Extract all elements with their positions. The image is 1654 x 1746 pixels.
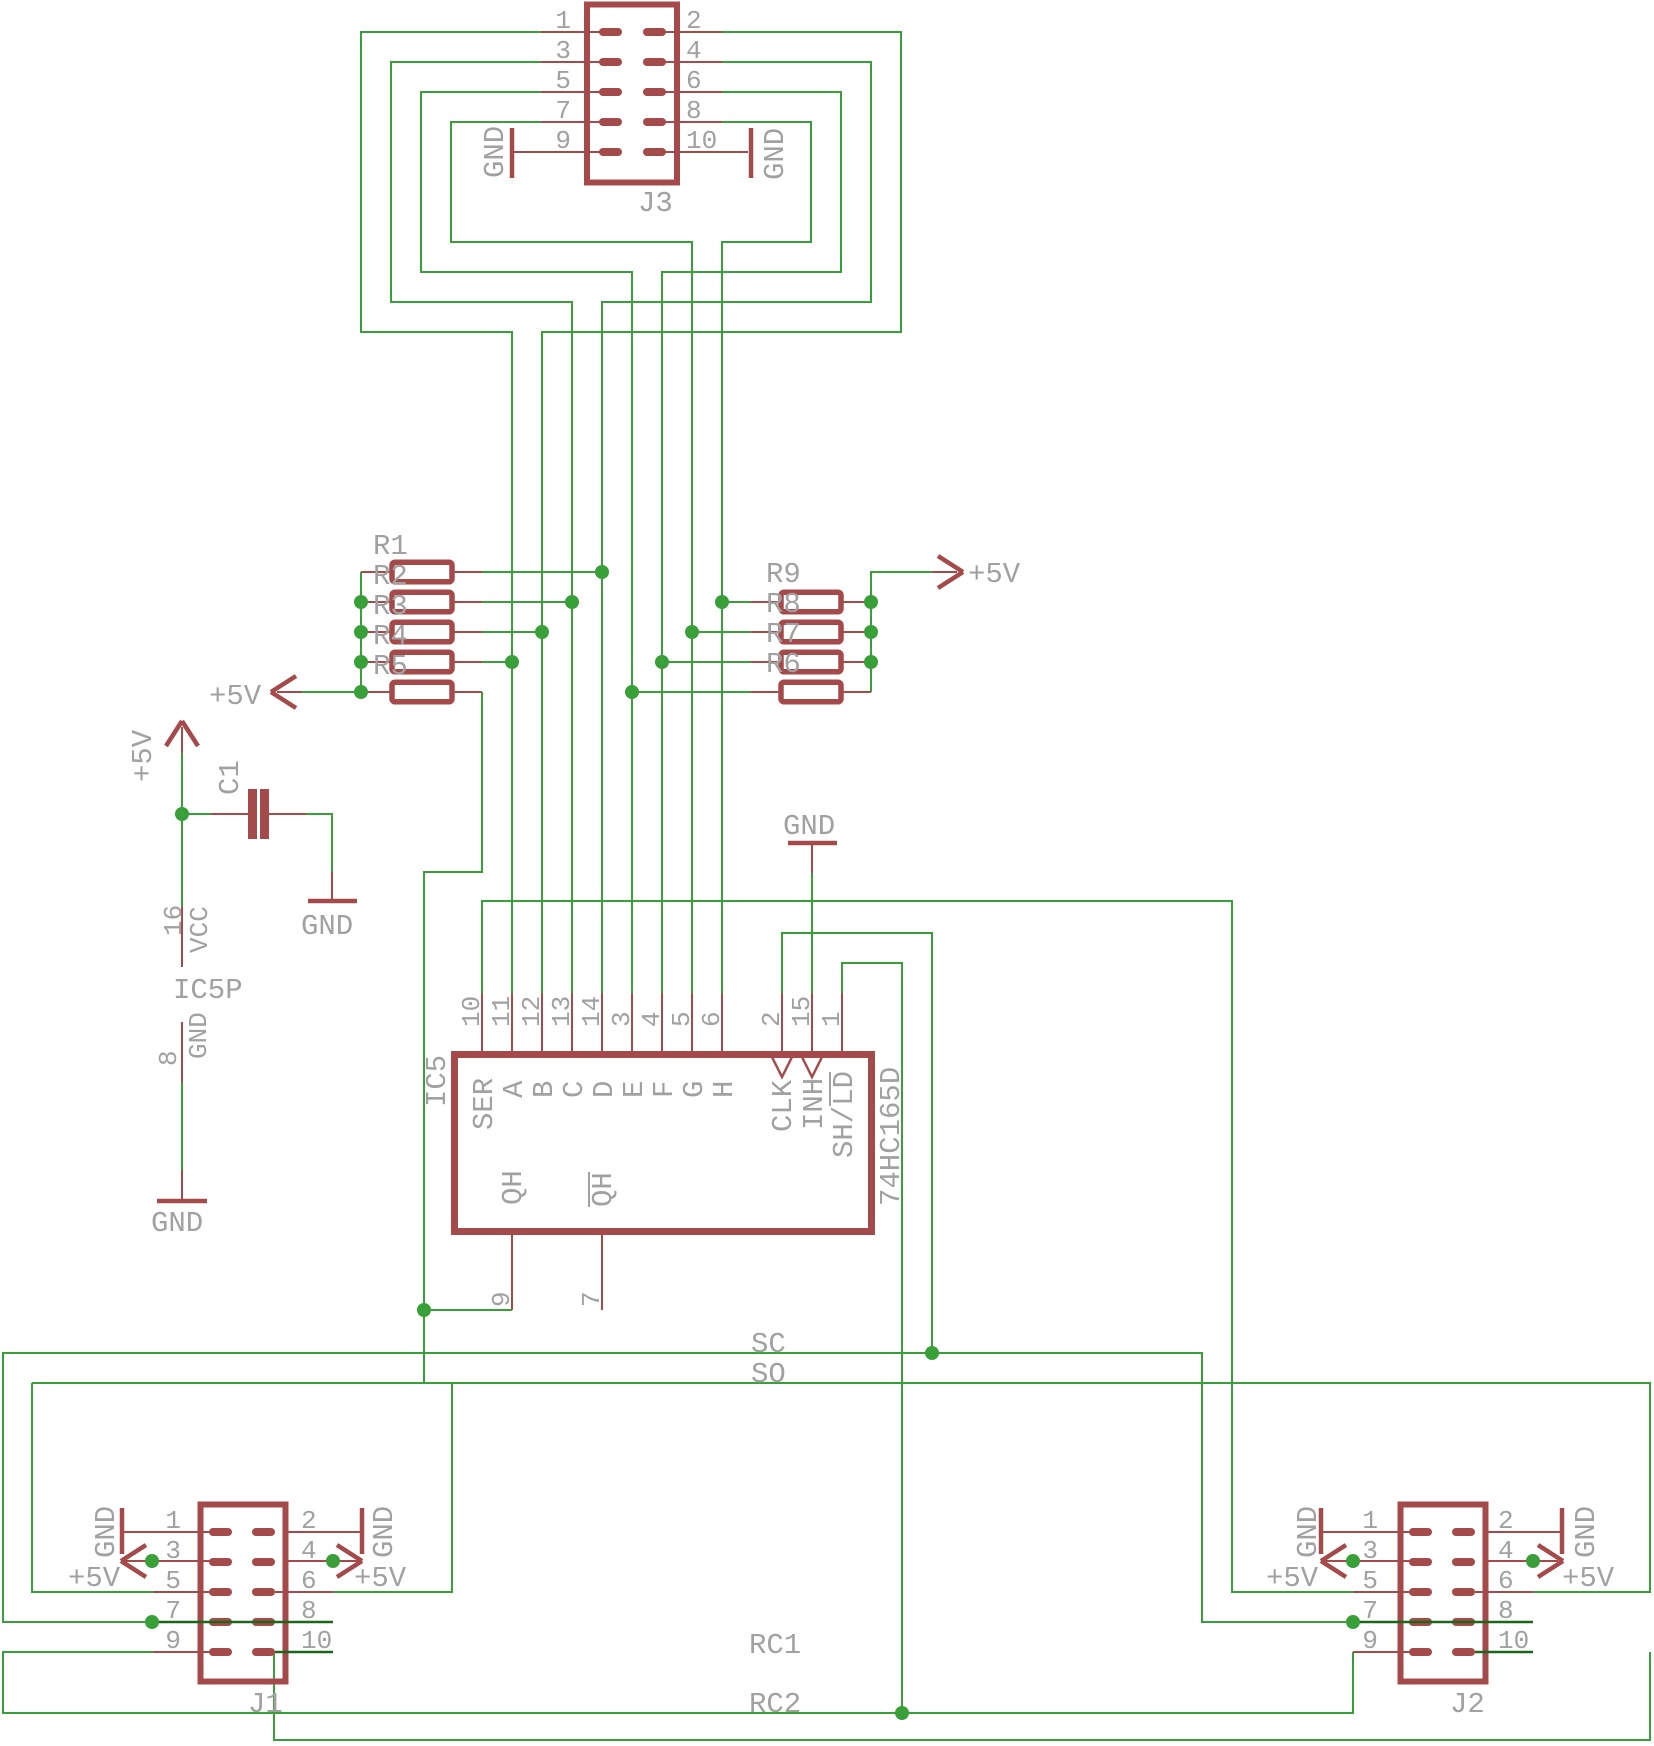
svg-text:74HC165D: 74HC165D <box>875 1067 908 1206</box>
ground GND at C1 <box>301 872 357 943</box>
wire SC net <box>3 1353 1353 1622</box>
svg-text:QH: QH <box>587 1172 620 1207</box>
svg-text:C1: C1 <box>214 760 247 795</box>
wire net J3 pin1 loop <box>361 32 541 993</box>
wire R9 left <box>722 601 751 603</box>
wire J2 pin10 stub <box>1475 1651 1533 1654</box>
wire net J3 pin8 loop <box>722 122 811 993</box>
wire J1 pin5 to SO <box>32 1383 153 1592</box>
resistor R9 <box>751 558 871 612</box>
wire R2 right <box>482 601 572 603</box>
wire RC1 J1 side <box>152 1621 333 1624</box>
wire R5 to QH to SO <box>424 692 482 1383</box>
svg-text:2: 2 <box>757 1011 787 1027</box>
svg-text:9: 9 <box>555 126 571 156</box>
junction <box>354 625 368 639</box>
connector J1 <box>153 1505 333 1682</box>
svg-text:J1: J1 <box>248 1688 283 1721</box>
power pins IC5P <box>154 905 243 1082</box>
wire IC5 pin9 QH <box>424 1309 512 1311</box>
junction <box>655 655 669 669</box>
svg-text:+5V: +5V <box>1562 1562 1615 1595</box>
svg-text:R7: R7 <box>766 618 801 651</box>
junction <box>925 1346 939 1360</box>
svg-text:6: 6 <box>686 66 702 96</box>
svg-text:GND: GND <box>783 810 835 843</box>
svg-text:CLK: CLK <box>767 1079 800 1132</box>
junction <box>417 1303 431 1317</box>
resistor R4 <box>361 620 482 672</box>
svg-text:10: 10 <box>686 126 717 156</box>
svg-text:4: 4 <box>686 36 702 66</box>
svg-text:7: 7 <box>577 1291 607 1307</box>
ground GND at J1 pin2 <box>288 1506 401 1558</box>
IC5 pin names <box>468 1071 861 1207</box>
svg-text:GND: GND <box>184 1012 214 1059</box>
svg-text:GND: GND <box>1570 1506 1603 1558</box>
junction <box>326 1554 340 1568</box>
svg-text:GND: GND <box>301 910 353 943</box>
svg-text:+5V: +5V <box>968 558 1021 591</box>
wire C1 left <box>182 813 211 815</box>
connector J3 <box>514 5 748 183</box>
J3 pin numbers <box>555 6 717 156</box>
wire +5V rail right <box>871 572 932 692</box>
J2 pin numbers <box>1362 1506 1529 1656</box>
wire J1 pin6 to SO <box>333 1383 452 1592</box>
svg-text:5: 5 <box>555 66 571 96</box>
wire R4 right <box>482 661 512 663</box>
svg-text:3: 3 <box>555 36 571 66</box>
resistor R5 <box>361 650 482 702</box>
svg-text:8: 8 <box>154 1050 184 1066</box>
svg-text:GND: GND <box>1292 1506 1325 1558</box>
svg-text:5: 5 <box>667 1011 697 1027</box>
power +5V left arrow <box>209 676 302 713</box>
svg-text:+5V: +5V <box>1266 1562 1319 1595</box>
svg-text:R4: R4 <box>373 620 408 653</box>
svg-text:IC5: IC5 <box>421 1055 454 1107</box>
svg-text:GND: GND <box>90 1506 123 1558</box>
svg-text:RC2: RC2 <box>749 1688 801 1721</box>
svg-text:VCC: VCC <box>185 906 215 953</box>
ground GND at J2 pin2 <box>1488 1506 1603 1558</box>
svg-text:9: 9 <box>1362 1626 1378 1656</box>
wire R6 left <box>632 691 751 693</box>
capacitor C1 <box>211 760 306 839</box>
svg-text:INH: INH <box>798 1078 831 1130</box>
junction <box>354 685 368 699</box>
ground GND at J1 pin1 <box>90 1506 215 1558</box>
svg-text:SO: SO <box>751 1358 786 1391</box>
svg-text:GND: GND <box>479 126 512 178</box>
junction <box>895 1706 909 1720</box>
svg-text:R8: R8 <box>766 588 801 621</box>
junction <box>354 595 368 609</box>
svg-text:9: 9 <box>487 1291 517 1307</box>
svg-text:8: 8 <box>686 96 702 126</box>
resistor R8 <box>751 588 871 642</box>
svg-text:R5: R5 <box>373 650 408 683</box>
svg-text:9: 9 <box>165 1626 181 1656</box>
wire net J3 pin4 loop <box>602 62 871 993</box>
junction <box>535 625 549 639</box>
connector J2 <box>1353 1505 1533 1682</box>
resistor R7 <box>751 618 871 672</box>
wire CLK to SC <box>782 933 932 1353</box>
svg-text:13: 13 <box>547 996 577 1027</box>
power +5V up arrow at IC5P <box>127 721 198 782</box>
wire net J3 pin3 loop <box>391 62 572 993</box>
power +5V at J2 pin3 <box>1266 1545 1415 1595</box>
junction <box>864 655 878 669</box>
svg-text:A: A <box>498 1080 531 1098</box>
wire J1 pin10 stub <box>275 1651 333 1654</box>
power +5V right arrow <box>932 556 1021 591</box>
wire net J3 pin5 loop <box>421 92 632 993</box>
wire net J3 pin7 loop <box>451 122 692 993</box>
svg-text:IC5P: IC5P <box>173 974 243 1007</box>
wire R8 left <box>692 631 751 633</box>
svg-text:H: H <box>708 1081 741 1098</box>
resistor R2 <box>361 560 482 612</box>
svg-text:12: 12 <box>517 996 547 1027</box>
svg-text:+5V: +5V <box>68 1562 121 1595</box>
power +5V at J2 pin4 <box>1488 1545 1615 1595</box>
junction <box>354 655 368 669</box>
ground GND at IC5P pin8 <box>151 1170 207 1240</box>
svg-text:G: G <box>678 1081 711 1098</box>
junction <box>625 685 639 699</box>
wire C1 right to ground <box>306 814 332 872</box>
wire R1 right <box>482 571 602 573</box>
svg-text:J3: J3 <box>638 187 673 220</box>
junction <box>505 655 519 669</box>
svg-text:R2: R2 <box>373 560 408 593</box>
svg-text:R3: R3 <box>373 590 408 623</box>
svg-text:E: E <box>618 1081 651 1098</box>
ground GND at J2 pin1 <box>1292 1506 1415 1558</box>
junction <box>1526 1554 1540 1568</box>
resistor R1 <box>361 530 482 582</box>
junction <box>145 1554 159 1568</box>
wire IC5P pin8 to ground <box>181 1082 183 1170</box>
svg-text:5: 5 <box>1362 1566 1378 1596</box>
svg-text:SH/LD: SH/LD <box>828 1071 861 1158</box>
svg-text:R6: R6 <box>766 648 801 681</box>
svg-text:+5V: +5V <box>127 729 160 782</box>
wire GND to INH <box>811 873 813 993</box>
svg-text:11: 11 <box>487 996 517 1027</box>
junction <box>685 625 699 639</box>
svg-text:+5V: +5V <box>354 1562 407 1595</box>
svg-text:R1: R1 <box>373 530 408 563</box>
svg-text:RC1: RC1 <box>749 1629 801 1662</box>
junction <box>864 625 878 639</box>
wire RC2 net <box>3 1652 1353 1713</box>
svg-text:6: 6 <box>301 1566 317 1596</box>
svg-text:1: 1 <box>817 1011 847 1027</box>
svg-text:J2: J2 <box>1450 1688 1485 1721</box>
junction <box>565 595 579 609</box>
svg-text:B: B <box>528 1081 561 1098</box>
svg-text:3: 3 <box>607 1011 637 1027</box>
junction <box>1346 1554 1360 1568</box>
wire R7 left <box>662 661 751 663</box>
svg-text:1: 1 <box>555 6 571 36</box>
svg-text:D: D <box>588 1081 621 1098</box>
ground GND at J3 pin9 <box>479 126 512 178</box>
resistor R3 <box>361 590 482 642</box>
svg-text:7: 7 <box>555 96 571 126</box>
svg-text:GND: GND <box>151 1207 203 1240</box>
svg-text:C: C <box>558 1081 591 1098</box>
svg-text:5: 5 <box>165 1566 181 1596</box>
svg-text:R9: R9 <box>766 558 801 591</box>
wire +5V rail left <box>302 572 361 692</box>
ground GND at INH <box>783 810 837 873</box>
wire +5V to VCC node <box>181 753 183 907</box>
svg-text:2: 2 <box>686 6 702 36</box>
svg-text:F: F <box>648 1081 681 1098</box>
svg-text:+5V: +5V <box>209 680 262 713</box>
ground GND at J3 pin10 <box>751 128 792 180</box>
svg-text:6: 6 <box>1498 1566 1514 1596</box>
wire SER net to J2 pin5 <box>482 901 1353 1592</box>
junction <box>175 807 189 821</box>
svg-text:10: 10 <box>457 996 487 1027</box>
junction <box>595 565 609 579</box>
resistor R6 <box>751 648 871 702</box>
wire net J3 pin6 loop <box>662 92 841 993</box>
J1 pin numbers <box>165 1506 332 1656</box>
junction <box>1346 1615 1360 1629</box>
IC IC5 74HC165D <box>455 993 872 1310</box>
svg-text:15: 15 <box>787 996 817 1027</box>
svg-text:SER: SER <box>468 1078 501 1130</box>
svg-text:14: 14 <box>577 996 607 1027</box>
svg-text:6: 6 <box>697 1011 727 1027</box>
power +5V at J1 pin4 <box>288 1545 407 1595</box>
svg-text:SC: SC <box>751 1328 786 1361</box>
junction <box>864 595 878 609</box>
IC5 pin numbers <box>457 996 847 1307</box>
power +5V at J1 pin3 <box>68 1545 215 1595</box>
wire J1 pin10 to J2 pin10 <box>274 1652 1650 1740</box>
wire SH/LD to RC2 <box>842 963 902 1713</box>
wire RC1 J2 side <box>1353 1621 1533 1624</box>
wire R3 right <box>482 631 542 633</box>
wire SO net <box>32 1383 1650 1592</box>
svg-text:GND: GND <box>759 128 792 180</box>
svg-text:GND: GND <box>368 1506 401 1558</box>
svg-text:QH: QH <box>497 1170 530 1205</box>
wire net J3 pin2 loop <box>542 32 901 993</box>
junction <box>715 595 729 609</box>
svg-text:4: 4 <box>637 1011 667 1027</box>
junction <box>145 1615 159 1629</box>
